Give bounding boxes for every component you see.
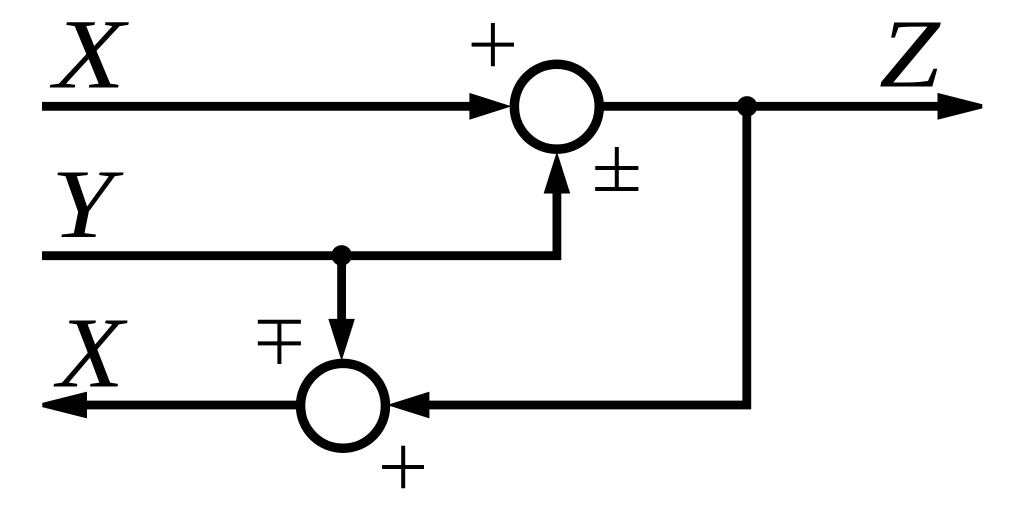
svg-text:X: X	[53, 297, 128, 409]
label X (bottom output)	[53, 297, 128, 409]
svg-text:X: X	[49, 0, 129, 110]
wire X output line	[84, 401, 299, 410]
label X (top input)	[49, 0, 129, 110]
junction dot on Y line	[331, 245, 352, 266]
svg-text:Z: Z	[879, 0, 941, 108]
label + (above summer S1)	[472, 23, 514, 66]
label ± (right of summer S1)	[595, 147, 638, 189]
label Z	[879, 0, 941, 108]
svg-text:Y: Y	[51, 149, 124, 258]
arrowhead feedback into summer S2 right	[387, 392, 429, 419]
label + (below-right of summer S2)	[382, 446, 424, 489]
arrowhead down into summer S2 top	[328, 319, 355, 361]
wire branch down from Y junction to summer S2	[337, 255, 346, 322]
summing junction S1	[514, 64, 599, 149]
summing junction S2	[301, 363, 386, 448]
wire X input line	[42, 102, 474, 111]
arrowhead Z output	[938, 93, 983, 120]
arrowhead X output (left)	[42, 392, 87, 419]
wire feedback from Z junction down and left to summer S2	[420, 106, 747, 405]
wire Z output line	[599, 102, 940, 111]
wire Y input line with turn up to summer S1	[42, 188, 557, 256]
arrowhead into summer S1	[469, 93, 511, 120]
junction dot on Z line	[737, 96, 758, 117]
label Y	[51, 149, 124, 258]
arrowhead up into summer S1 bottom	[544, 151, 571, 193]
label ∓ (above-left of summer S2)	[258, 320, 301, 364]
